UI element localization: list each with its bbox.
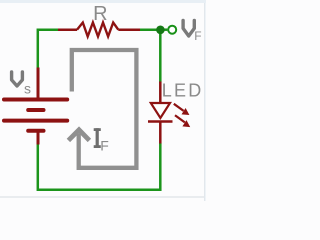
wire: resistor output green segment to node (140, 28, 161, 31)
svg-text:s: s (24, 80, 31, 96)
node (junction dot) (156, 26, 165, 35)
LED triangle (151, 103, 170, 118)
battery VS bottom lead (red stub) (37, 131, 40, 145)
top band (0, 0, 206, 3)
current arrow head (68, 130, 89, 141)
terminal VF (open circle) (168, 26, 176, 34)
battery plate 1 (long) (4, 98, 67, 102)
resistor R zigzag (77, 23, 118, 37)
current loop (gray) (72, 50, 137, 168)
svg-text:F: F (100, 138, 109, 154)
LED emission arrow 1 (174, 104, 190, 115)
resistor R leads (58, 28, 140, 31)
battery plate 2 (short) (28, 108, 43, 112)
label VS glyph V (12, 72, 23, 86)
LED cathode bar (148, 120, 173, 122)
LED emission arrow 2 (175, 115, 190, 127)
svg-text:LED: LED (162, 80, 204, 100)
bottom border line (0, 196, 204, 198)
battery plate 4 (short) (28, 129, 43, 133)
LED anode lead (red) (159, 82, 162, 104)
right border line (204, 3, 206, 201)
battery plate 3 (long) (4, 119, 67, 123)
svg-text:F: F (194, 29, 201, 43)
LED cathode lead (red) (159, 122, 162, 144)
wire: node to terminal stub (160, 28, 167, 31)
wire: LED cathode down, bottom return, up to battery - (38, 143, 161, 190)
svg-text:R: R (93, 3, 107, 25)
battery VS top lead (red stub) (37, 68, 40, 98)
wire: top-left green segment (battery + to resistor) (38, 30, 59, 68)
label IF glyph I (serif) (94, 128, 101, 148)
label VF glyph V (183, 20, 194, 36)
wire: node down to LED anode (159, 30, 162, 83)
